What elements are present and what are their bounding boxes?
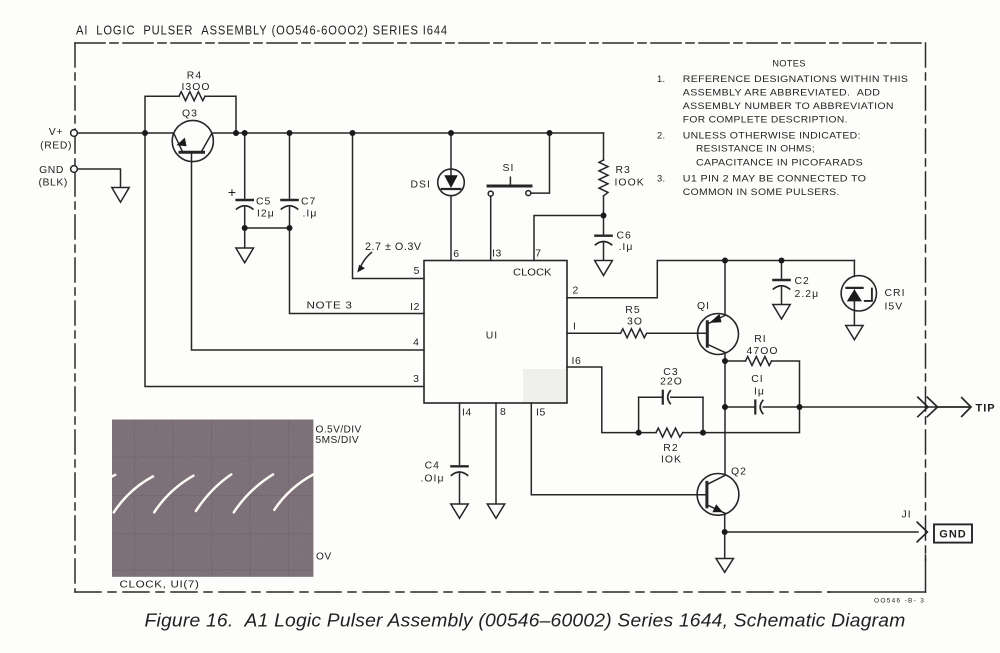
connector chevrons TIP xyxy=(918,397,971,416)
ground (C6) xyxy=(595,261,613,276)
resistor R4 xyxy=(145,92,236,133)
svg-text:2.: 2. xyxy=(657,130,665,140)
svg-text:2: 2 xyxy=(573,286,579,297)
svg-text:C2: C2 xyxy=(795,276,810,287)
node pin2 rail / Q1 emitter xyxy=(722,258,728,264)
LED DS1 xyxy=(438,133,465,261)
svg-text:CRI: CRI xyxy=(885,288,906,299)
svg-text:I5: I5 xyxy=(536,408,546,419)
resistor R2 xyxy=(639,428,703,437)
assembly boundary (dash-dot border) xyxy=(75,43,926,592)
capacitor C7 xyxy=(281,133,297,228)
svg-text:C7: C7 xyxy=(301,196,316,207)
svg-text:C4: C4 xyxy=(425,460,440,471)
svg-text:REFERENCE DESIGNATIONS WITHIN: REFERENCE DESIGNATIONS WITHIN THIS xyxy=(683,74,909,84)
svg-text:I2: I2 xyxy=(410,302,420,313)
node C3/R2 right xyxy=(700,430,706,436)
svg-text:22O: 22O xyxy=(660,377,683,388)
svg-text:I4: I4 xyxy=(462,407,472,418)
svg-text:2.7 ± O.3V: 2.7 ± O.3V xyxy=(365,241,422,253)
resistor R3 xyxy=(599,133,608,216)
node V+ rail / C7 xyxy=(287,130,293,136)
wire U1 pin 15 to Q2 base xyxy=(531,403,707,495)
node Q1 collector / R1 xyxy=(722,358,728,364)
svg-text:U1 PIN 2 MAY BE CONNECTED TO: U1 PIN 2 MAY BE CONNECTED TO xyxy=(683,173,867,183)
svg-text:4: 4 xyxy=(413,338,419,349)
resistor R1 xyxy=(725,357,800,408)
transistor Q1 xyxy=(698,261,739,408)
svg-text:ASSEMBLY NUMBER TO ABBREVIATIO: ASSEMBLY NUMBER TO ABBREVIATION xyxy=(683,101,894,111)
capacitor C1 xyxy=(725,401,800,414)
waveform trace arcs xyxy=(110,474,313,512)
wire R5 to Q1 base xyxy=(648,332,708,334)
terminal V+ xyxy=(71,130,78,137)
svg-text:I: I xyxy=(573,321,577,332)
wire Q3 base to U1 pin 4 xyxy=(192,152,425,350)
svg-text:3: 3 xyxy=(413,374,419,385)
svg-text:TIP: TIP xyxy=(976,403,996,415)
svg-text:8: 8 xyxy=(500,407,506,418)
node V+ rail / DS1 xyxy=(448,130,454,136)
svg-text:RESISTANCE IN OHMS;: RESISTANCE IN OHMS; xyxy=(696,144,815,154)
svg-text:CLOCK: CLOCK xyxy=(513,268,552,279)
svg-text:Figure 16. A1 Logic Pulser As: Figure 16. A1 Logic Pulser Assembly (005… xyxy=(145,610,906,631)
wire C5 to ground xyxy=(244,228,246,248)
ground (C4 / U1 pin 14) xyxy=(451,504,468,518)
node V+ rail / C5 xyxy=(242,130,248,136)
node V+ rail / pin3 branch xyxy=(142,130,148,136)
svg-text:NOTE 3: NOTE 3 xyxy=(307,300,353,311)
svg-text:.OIμ: .OIμ xyxy=(420,473,444,484)
wire node A to U1 pin 3 xyxy=(145,133,424,387)
svg-text:C5: C5 xyxy=(256,196,271,207)
svg-text:CLOCK, UI(7): CLOCK, UI(7) xyxy=(120,580,200,591)
svg-text:CAPACITANCE IN PICOFARADS: CAPACITANCE IN PICOFARADS xyxy=(696,157,863,167)
wire C7 to U1 pin 12 (NOTE 3 net) xyxy=(290,228,425,314)
svg-text:+: + xyxy=(228,184,236,200)
node C5 bottom xyxy=(242,225,248,231)
node Q2 emitter / J1 xyxy=(722,529,728,535)
svg-text:RI: RI xyxy=(754,334,767,345)
svg-text:COMMON IN SOME PULSERS.: COMMON IN SOME PULSERS. xyxy=(683,187,840,197)
wire R2 node to output node xyxy=(703,407,800,433)
svg-text:Q3: Q3 xyxy=(182,109,198,120)
svg-text:QI: QI xyxy=(697,301,710,312)
svg-text:Q2: Q2 xyxy=(731,467,747,478)
oscilloscope photo (CLOCK waveform) xyxy=(110,420,313,577)
node V+ rail / S1 xyxy=(547,130,553,136)
connector chevron J1 xyxy=(917,522,927,542)
svg-text:5MS/DIV: 5MS/DIV xyxy=(316,435,360,446)
resistor R5 xyxy=(621,329,648,338)
svg-text:IOK: IOK xyxy=(661,454,682,465)
svg-text:O.5V/DIV: O.5V/DIV xyxy=(316,424,362,435)
svg-text:GND: GND xyxy=(939,529,966,541)
wire U1 pin 8 to ground xyxy=(495,403,497,504)
svg-text:R2: R2 xyxy=(663,443,678,454)
wire C5-C7 bottom link xyxy=(245,227,290,229)
node C3/R2 left xyxy=(636,430,642,436)
ground (U1 pin 8) xyxy=(487,504,504,518)
node V+ rail / R4 right leg xyxy=(233,130,239,136)
svg-text:6: 6 xyxy=(453,249,459,260)
wire V+ rail xyxy=(78,132,174,134)
wire Q2 emitter to ground xyxy=(724,532,726,559)
wire U1 pin 16 to R2/C3 xyxy=(567,367,639,433)
svg-text:1.: 1. xyxy=(657,74,665,84)
svg-text:5: 5 xyxy=(414,266,420,277)
capacitor C4 xyxy=(451,403,467,504)
wire U1 pin 2 to C2/CR1 rail xyxy=(567,261,854,298)
switch S1 xyxy=(488,133,550,261)
svg-text:.Iμ: .Iμ xyxy=(303,209,318,220)
svg-text:R5: R5 xyxy=(625,305,640,316)
op-amp U1 (IC box) xyxy=(424,261,567,404)
svg-text:.Iμ: .Iμ xyxy=(619,242,634,253)
svg-text:C6: C6 xyxy=(617,230,632,241)
wire U1 pin 1 to R5 xyxy=(567,332,621,334)
node pin2 rail / C2 xyxy=(779,258,785,264)
svg-text:47OO: 47OO xyxy=(747,346,779,357)
svg-text:UNLESS OTHERWISE INDICATED:: UNLESS OTHERWISE INDICATED: xyxy=(683,130,861,140)
svg-text:UI: UI xyxy=(486,330,499,341)
node output R1/C1 right xyxy=(797,404,803,410)
svg-text:(BLK): (BLK) xyxy=(38,178,68,189)
wire V+ rail to U1 pin 5 xyxy=(353,133,425,279)
svg-text:I5V: I5V xyxy=(885,302,904,313)
svg-text:AI LOGIC PULSER ASSEMBLY (O: AI LOGIC PULSER ASSEMBLY (OO546-6OOO2) S… xyxy=(76,24,448,38)
arrow for 2.7V callout xyxy=(357,253,371,273)
svg-text:3.: 3. xyxy=(657,173,665,183)
svg-text:R4: R4 xyxy=(187,70,202,81)
ground (C2) xyxy=(773,305,790,320)
node R3 / C6 / pin7 xyxy=(601,213,607,219)
svg-text:(RED): (RED) xyxy=(40,141,72,152)
svg-text:DSI: DSI xyxy=(411,179,431,190)
capacitor C6 xyxy=(595,216,611,261)
print ghost artifact xyxy=(523,369,566,402)
transistor Q3 xyxy=(172,120,213,161)
wire V+ rail right of Q3 xyxy=(212,132,604,134)
ground (CR1) xyxy=(846,326,863,340)
svg-text:2.2μ: 2.2μ xyxy=(795,289,820,300)
svg-text:V+: V+ xyxy=(49,127,63,138)
svg-text:I2μ: I2μ xyxy=(257,208,275,219)
GND box xyxy=(934,524,972,542)
ground (Q2) xyxy=(716,559,733,573)
wire Q2 emitter to J1 GND connector xyxy=(725,531,918,533)
terminal GND xyxy=(71,166,121,188)
svg-text:I6: I6 xyxy=(572,356,582,367)
svg-text:IOOK: IOOK xyxy=(615,178,645,189)
svg-text:OV: OV xyxy=(316,551,332,562)
svg-text:7: 7 xyxy=(535,249,541,260)
capacitor C2 xyxy=(773,261,789,305)
svg-text:OO546 -B- 3: OO546 -B- 3 xyxy=(874,598,925,605)
svg-text:NOTES: NOTES xyxy=(772,58,806,68)
svg-text:I3OO: I3OO xyxy=(181,82,210,93)
ground (C5) xyxy=(236,248,254,263)
svg-text:JI: JI xyxy=(902,510,912,521)
capacitor C3 xyxy=(639,391,703,404)
node V+ rail / pin5 branch xyxy=(350,130,356,136)
svg-text:FOR COMPLETE DESCRIPTION.: FOR COMPLETE DESCRIPTION. xyxy=(683,114,848,124)
wire C3/R2 right link xyxy=(702,397,704,432)
svg-text:CI: CI xyxy=(751,374,764,385)
wire R3/C6 node to U1 pin 7 xyxy=(534,216,604,261)
zener diode CR1 xyxy=(841,261,876,326)
svg-text:3O: 3O xyxy=(627,317,643,328)
capacitor C5 xyxy=(237,133,253,228)
node Q1 line / C1 left xyxy=(722,404,728,410)
ground (GND terminal) xyxy=(112,188,129,203)
svg-text:GND: GND xyxy=(39,165,64,176)
svg-text:R3: R3 xyxy=(616,165,631,176)
wire C3/R2 left link xyxy=(638,397,640,432)
svg-text:SI: SI xyxy=(503,163,515,174)
wire output node to TIP connector xyxy=(800,406,937,408)
node C7 bottom xyxy=(287,225,293,231)
svg-text:I3: I3 xyxy=(492,249,502,260)
transistor Q2 xyxy=(697,407,739,532)
svg-text:Iμ: Iμ xyxy=(754,386,765,397)
svg-text:ASSEMBLY ARE ABBREVIATED. ADD: ASSEMBLY ARE ABBREVIATED. ADD xyxy=(683,87,881,97)
